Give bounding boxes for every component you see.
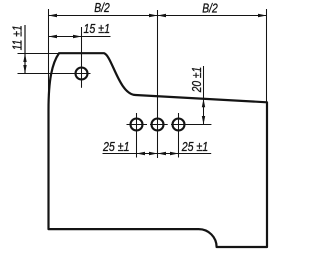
svg-text:B/2: B/2 — [94, 0, 110, 15]
svg-text:25 ±1: 25 ±1 — [102, 139, 129, 154]
svg-text:20 ±1: 20 ±1 — [189, 67, 204, 93]
svg-text:11 ±1: 11 ±1 — [10, 25, 25, 50]
svg-text:15 ±1: 15 ±1 — [84, 21, 111, 36]
svg-text:25 ±1: 25 ±1 — [181, 139, 208, 154]
svg-text:B/2: B/2 — [202, 0, 218, 15]
